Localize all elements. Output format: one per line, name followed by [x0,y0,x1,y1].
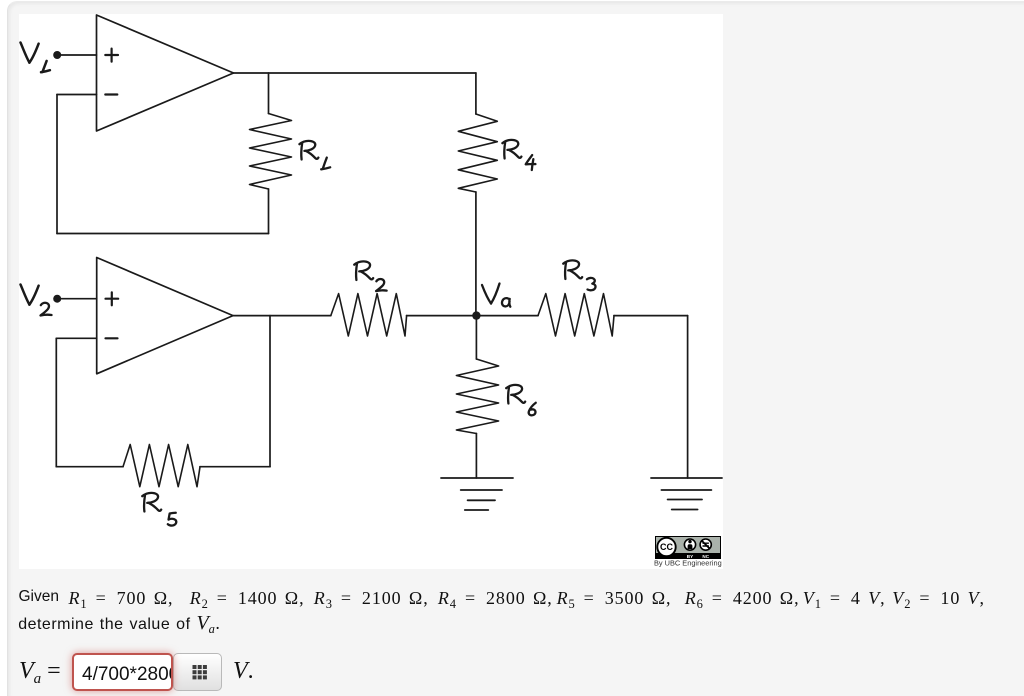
wire U2 feedback left vertical [55,338,57,466]
wire R6 to ground [475,434,477,479]
label R4 [502,140,535,170]
wire R4 bottom to node Va [475,192,477,316]
wire R4 top vertical [475,73,477,114]
label R5 [142,493,176,526]
wire U1 output horizontal [234,72,476,74]
resistor R3 [538,294,614,336]
wire U1 inverting input stub [57,94,97,96]
ground GND1 [441,478,513,510]
wire right vertical to ground [687,316,689,478]
label R3 [563,260,595,290]
op-amp U1 [97,15,234,131]
resistor R6 [456,359,498,434]
CC BY-NC license badge [655,536,721,564]
ground GND2 [651,478,722,510]
white circuit image panel [19,14,723,569]
op-amp U2 [97,258,233,374]
op-amp U1 plus pin label [105,49,118,62]
answer row [19,650,519,696]
wire U2 feedback right vertical [269,316,271,467]
wire node Va down to R6 [475,316,477,359]
wire R1 bottom to feedback [268,189,270,234]
label Va [482,284,510,307]
op-amp U2 minus pin label [106,337,118,339]
wire R3 to right drop [614,315,688,317]
wire R5 to right vertical [200,466,270,468]
wire V1 to U1 noninverting input [57,54,96,56]
op-amp U2 plus pin label [106,292,119,305]
wire U1 output to R1 top [268,73,270,114]
answer input box [72,653,173,691]
label V1 [21,43,50,73]
wire V2 to U2 noninverting input [57,298,96,300]
wire U2 output to R2 [233,315,331,317]
attribution byline [654,559,722,567]
wire U1 feedback left vertical [56,95,58,234]
wire node Va to R3 [476,315,538,317]
resistor R2 [331,294,407,336]
label R1 [299,141,330,169]
resistor R1 [250,114,292,190]
resistor R4 [458,114,497,192]
label V2 [21,285,52,316]
wire U2 inverting input stub [56,337,96,339]
op-amp U1 minus pin label [105,93,117,95]
node Va junction dot [472,311,480,319]
label R2 [354,261,386,291]
wire U1 feedback bottom horizontal [57,233,269,235]
node V2 terminal dot [53,295,61,303]
wire R2 to node Va [407,315,477,317]
keypad button [173,653,222,691]
resistor R5 [123,445,200,487]
label R6 [506,385,536,415]
node V1 terminal dot [53,51,61,59]
wire U2 feedback bottom to R5 [56,466,123,468]
